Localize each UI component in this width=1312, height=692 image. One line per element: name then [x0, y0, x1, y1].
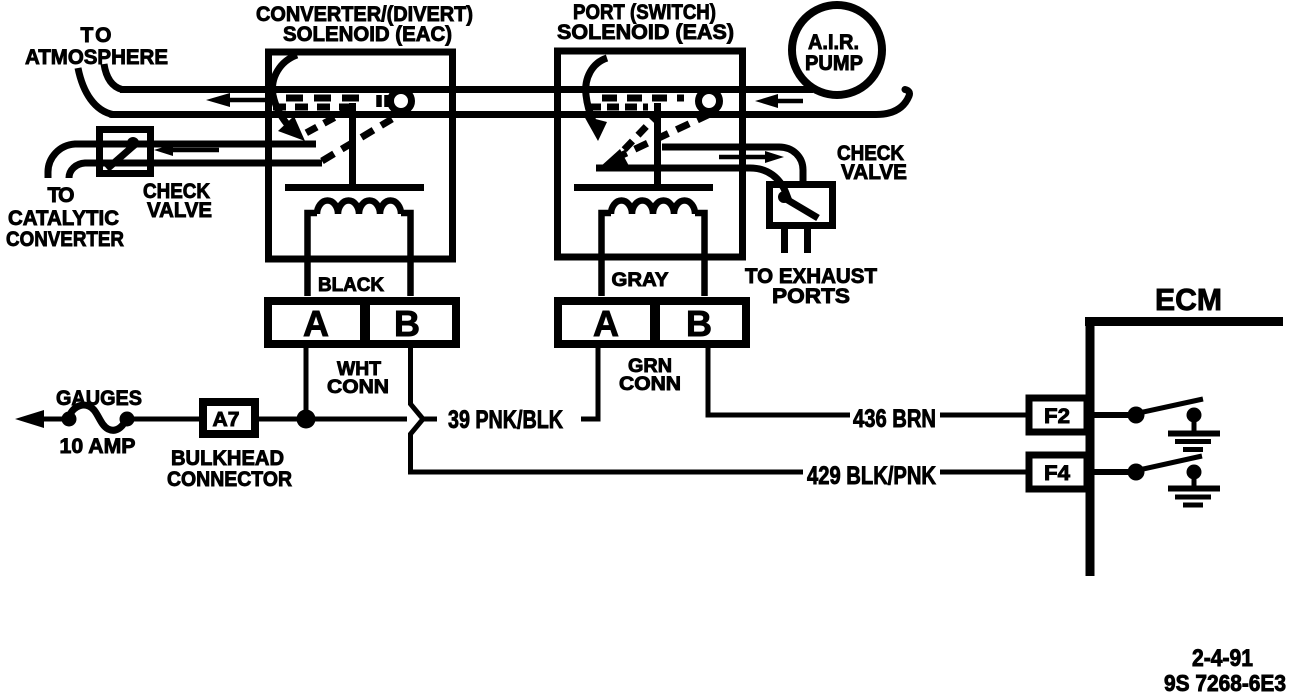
- svg-text:TO: TO: [48, 184, 75, 207]
- solenoid EAS box: [558, 51, 743, 257]
- ground F4: [1192, 478, 1197, 488]
- wire 429 BLK/PNK: [408, 470, 803, 475]
- wire fuse to A7: [133, 417, 200, 422]
- svg-text:CONN: CONN: [619, 374, 681, 395]
- fuse 10 amp: [62, 412, 77, 427]
- flow arc arrow EAC: [272, 55, 297, 124]
- hose to catalytic lower curve: [69, 163, 322, 178]
- flow arrow left near pump: [755, 94, 803, 108]
- svg-text:ATMOSPHERE: ATMOSPHERE: [25, 46, 168, 69]
- svg-text:PUMP: PUMP: [805, 52, 863, 75]
- svg-text:CONNECTOR: CONNECTOR: [167, 468, 292, 491]
- svg-text:10 AMP: 10 AMP: [60, 435, 136, 458]
- svg-text:CONN: CONN: [327, 377, 389, 398]
- flow arrow left on pipe: [206, 93, 276, 107]
- wire pin A EAS down: [581, 344, 598, 419]
- svg-text:436 BRN: 436 BRN: [853, 405, 936, 433]
- label TO ATMOSPHERE: [25, 24, 168, 69]
- connector pins box EAS: [558, 301, 746, 344]
- hose to catalytic upper curve: [48, 144, 316, 178]
- svg-text:A: A: [303, 303, 329, 344]
- switch F4 contact dot: [1187, 465, 1202, 480]
- coil EAS: [602, 201, 705, 297]
- wire stub after chevron: [424, 417, 437, 422]
- svg-text:CATALYTIC: CATALYTIC: [8, 207, 119, 230]
- plunger stem EAC: [349, 103, 356, 187]
- wire pipe bottom line with pump hook: [111, 90, 910, 115]
- solenoid EAC box: [269, 52, 453, 259]
- label GRN CONN: [619, 356, 681, 395]
- dashed diagonal upper EAC: [306, 108, 352, 133]
- hose EAS to check valve 2 lower: [596, 168, 789, 201]
- wire pin B EAC down with inline connector chevron: [411, 344, 424, 472]
- svg-text:GAUGES: GAUGES: [56, 387, 142, 410]
- svg-text:CONVERTER: CONVERTER: [6, 228, 124, 251]
- label CONVERTER/(DIVERT) SOLENOID (EAC): [256, 3, 473, 46]
- wire atmosphere hose lower curve: [78, 68, 113, 115]
- label TO CATALYTIC CONVERTER: [6, 184, 124, 251]
- svg-text:B: B: [686, 303, 712, 344]
- valve shuttle dashes EAC: [273, 95, 387, 107]
- svg-text:GRAY: GRAY: [612, 270, 669, 291]
- label TO EXHAUST PORTS: [745, 265, 877, 308]
- flow arc arrow EAS: [586, 58, 607, 120]
- valve ball EAS: [699, 91, 720, 112]
- flow arrow into check valve 1: [154, 144, 219, 156]
- svg-text:SOLENOID (EAS): SOLENOID (EAS): [557, 21, 734, 44]
- svg-text:39 PNK/BLK: 39 PNK/BLK: [448, 406, 563, 434]
- wire F4 to switch: [1090, 469, 1128, 475]
- label BULKHEAD CONNECTOR: [167, 447, 292, 491]
- svg-text:A.I.R.: A.I.R.: [808, 31, 859, 54]
- svg-text:F2: F2: [1044, 405, 1070, 428]
- switch F2 pivot dot: [1128, 407, 1145, 424]
- svg-text:F4: F4: [1044, 462, 1070, 485]
- check valve 2 box: [770, 185, 833, 226]
- switch F4 arm: [1143, 456, 1202, 469]
- svg-text:9S 7268-6E3: 9S 7268-6E3: [1164, 670, 1286, 692]
- label WHT CONN: [327, 359, 389, 398]
- check valve 1 flapper: [107, 141, 139, 169]
- svg-text:429 BLK/PNK: 429 BLK/PNK: [807, 462, 936, 490]
- ground F2: [1192, 421, 1197, 432]
- switch F2 arm: [1143, 399, 1203, 412]
- valve shuttle dashes EAS: [589, 98, 684, 107]
- hose EAS to check valve 2 upper: [662, 147, 803, 183]
- wire A7 to junction: [259, 417, 407, 422]
- coil EAC: [308, 201, 411, 297]
- wire atmosphere hose upper curve: [104, 64, 122, 90]
- wire pin B EAS down: [708, 344, 850, 415]
- junction dot: [297, 410, 316, 429]
- label A.I.R. PUMP: [805, 31, 863, 75]
- svg-text:A7: A7: [213, 409, 240, 431]
- label CHECK VALVE left: [143, 180, 212, 222]
- svg-text:A: A: [593, 303, 619, 344]
- wire F2 to switch: [1090, 412, 1128, 418]
- armature bar EAS: [574, 184, 713, 191]
- svg-text:ECM: ECM: [1155, 282, 1222, 317]
- armature bar EAC: [285, 184, 424, 191]
- switch F4 pivot dot: [1128, 464, 1145, 481]
- wire pipe top line: [120, 86, 813, 93]
- wire arrow to gauges: [15, 410, 44, 428]
- valve ball EAC: [391, 91, 412, 112]
- bulkhead connector A7 box: [203, 402, 255, 434]
- pin F2 box: [1029, 398, 1087, 432]
- svg-text:VALVE: VALVE: [841, 161, 907, 184]
- check valve 2 legs: [781, 226, 788, 253]
- dashed diagonal path EAC: [322, 119, 392, 161]
- svg-text:BLACK: BLACK: [318, 275, 384, 296]
- flow arrow into check valve 2: [719, 151, 784, 163]
- connector pins box EAC: [268, 301, 456, 344]
- pin F4 box: [1029, 455, 1087, 489]
- svg-text:VALVE: VALVE: [147, 199, 212, 222]
- svg-text:PORTS: PORTS: [772, 285, 850, 308]
- check valve 1 box: [100, 130, 151, 174]
- dashed diagonal upper EAS: [622, 112, 660, 152]
- switch F2 contact dot: [1187, 408, 1202, 423]
- label CHECK VALVE right: [837, 142, 907, 184]
- A.I.R. pump circle: [792, 5, 882, 95]
- ECM border: [1085, 317, 1283, 576]
- svg-text:2-4-91: 2-4-91: [1192, 645, 1253, 672]
- svg-text:TO: TO: [81, 24, 112, 47]
- wire pin A EAC down: [304, 344, 309, 419]
- dashed diagonal path EAS: [618, 114, 710, 157]
- svg-text:B: B: [394, 303, 420, 344]
- check valve 2 flapper: [778, 191, 790, 203]
- label PORT (SWITCH) SOLENOID (EAS): [557, 1, 734, 44]
- plunger stem EAS: [654, 103, 661, 187]
- svg-text:SOLENOID (EAC): SOLENOID (EAC): [283, 23, 452, 46]
- svg-text:BULKHEAD: BULKHEAD: [171, 447, 284, 470]
- wire 436 BRN right segment: [940, 413, 1026, 418]
